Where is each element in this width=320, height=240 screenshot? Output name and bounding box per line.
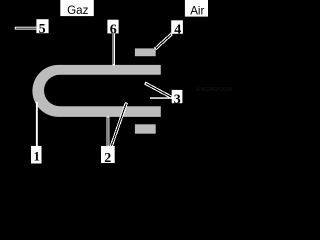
svg-text:Gaz: Gaz xyxy=(67,4,88,17)
svg-text:2: 2 xyxy=(104,151,111,166)
svg-text:1: 1 xyxy=(34,150,40,164)
svg-text:3: 3 xyxy=(174,92,181,107)
svg-text:4: 4 xyxy=(174,22,181,37)
svg-text:6: 6 xyxy=(110,22,117,37)
svg-text:A. BCDFGHJKLM: A. BCDFGHJKLM xyxy=(196,87,232,93)
svg-text:Air: Air xyxy=(190,4,204,17)
svg-text:5: 5 xyxy=(39,22,46,37)
